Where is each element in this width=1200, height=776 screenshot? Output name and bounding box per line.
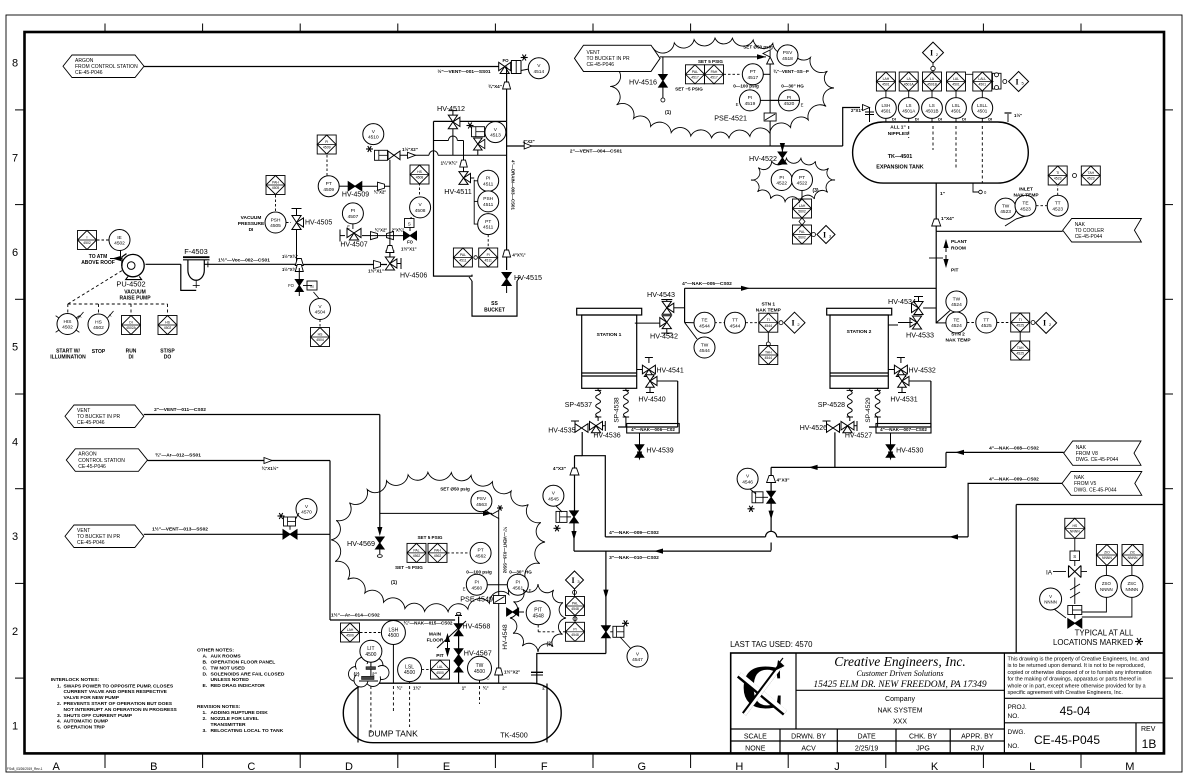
svg-text:1B: 1B <box>1142 737 1157 751</box>
svg-text:Company: Company <box>885 696 915 703</box>
svg-text:4502: 4502 <box>93 325 104 331</box>
interlock diamond I-2 above <box>932 63 934 73</box>
svg-text:LS: LS <box>929 103 935 108</box>
valve HV-4505 (3-way w/ handle) <box>296 230 298 265</box>
svg-text:TE: TE <box>1022 201 1028 207</box>
svg-text:1¼"X¾": 1¼"X¾" <box>441 161 458 166</box>
svg-text:4525: 4525 <box>1016 324 1024 328</box>
svg-text:4520: 4520 <box>784 101 795 107</box>
svg-text:4509: 4509 <box>323 187 334 193</box>
instrument LSH-4500 <box>381 621 405 645</box>
svg-text:NAK TEMP: NAK TEMP <box>756 308 782 314</box>
svg-text:4501: 4501 <box>977 109 988 114</box>
reducer 3/4"X4" below V-4514 <box>506 67 508 122</box>
svg-text:PT: PT <box>799 175 805 181</box>
svg-text:4"X3": 4"X3" <box>553 466 566 472</box>
dashed link PIT to PI square <box>537 625 539 632</box>
svg-text:VACUUM: VACUUM <box>241 215 262 221</box>
wire <box>370 235 404 237</box>
vertical header through cloud <box>769 64 771 113</box>
svg-text:ZIO: ZIO <box>1104 551 1110 555</box>
svg-text:HS: HS <box>1072 524 1077 528</box>
svg-text:PAL: PAL <box>413 548 419 552</box>
valves HV-4535 / HV-4536 pair <box>574 421 576 425</box>
off-page flag: NAK FROM V5 <box>1062 472 1142 496</box>
svg-text:FO: FO <box>288 283 295 288</box>
instrument IE-4502 <box>109 230 130 251</box>
plant room / pit riser pipe <box>935 231 937 323</box>
STATION 1 vessel <box>577 308 642 315</box>
off-page flag: VENT TO BUCKET IN PR (top) <box>575 45 661 71</box>
riser from HV-4512 to regulator line <box>452 129 454 156</box>
vertical pipe from V-4510 valve down to HV-4506 <box>389 160 391 257</box>
svg-text:4"—NAK—009—CS02: 4"—NAK—009—CS02 <box>989 477 1039 483</box>
svg-text:INTERLOCK NOTES:: INTERLOCK NOTES: <box>51 677 100 683</box>
instrument TW-4500 <box>468 656 492 680</box>
svg-text:4517: 4517 <box>710 76 718 80</box>
link to I-5 diamond <box>992 81 994 83</box>
svg-text:3"—NAK—010—CS02: 3"—NAK—010—CS02 <box>609 555 659 561</box>
instrument LIT-4500 <box>360 640 382 662</box>
svg-text:C.: C. <box>203 665 209 671</box>
svg-text:¾"─VENT─SS─P: ¾"─VENT─SS─P <box>773 69 809 74</box>
svg-text:SWAPS POWER TO OPPOSITE PUMP,: SWAPS POWER TO OPPOSITE PUMP, CLOSES <box>64 683 174 689</box>
off-page flag: NAK FROM V8 <box>1064 441 1141 465</box>
svg-text:CE-45-P046: CE-45-P046 <box>587 62 615 68</box>
svg-text:whole or in part, except where: whole or in part, except where otherwise… <box>1007 683 1146 689</box>
svg-text:HS: HS <box>95 319 102 325</box>
svg-text:FROM CONTROL STATION: FROM CONTROL STATION <box>75 64 138 70</box>
svg-text:4544: 4544 <box>699 348 710 354</box>
svg-text:4548: 4548 <box>571 633 579 637</box>
svg-text:I: I <box>823 230 826 239</box>
regulator under V-4510 <box>375 150 388 160</box>
svg-text:STN 1: STN 1 <box>761 302 775 308</box>
svg-text:D: D <box>345 761 353 773</box>
svg-text:PI: PI <box>486 176 491 182</box>
svg-text:1½"—VENT—013—SS02: 1½"—VENT—013—SS02 <box>152 526 208 533</box>
svg-text:NONE: NONE <box>745 746 766 753</box>
interlock squares TI-4523 TAH-4523 <box>1057 186 1059 195</box>
reducer 4"X3" <box>570 468 579 475</box>
svg-text:4"—DRAIN—003—CS01: 4"—DRAIN—003—CS01 <box>511 160 516 210</box>
svg-text:PU-4502: PU-4502 <box>116 280 145 289</box>
svg-text:¾": ¾" <box>397 686 403 691</box>
svg-text:RELOCATING LOCAL TO TANK: RELOCATING LOCAL TO TANK <box>211 728 284 734</box>
svg-text:DI: DI <box>129 321 132 325</box>
svg-text:4508: 4508 <box>415 208 426 214</box>
svg-text:4500: 4500 <box>474 669 485 675</box>
svg-text:LSLL: LSLL <box>977 103 988 108</box>
svg-text:TYPICAL AT ALL: TYPICAL AT ALL <box>1075 629 1134 638</box>
svg-text:TK-4500: TK-4500 <box>500 731 528 740</box>
boxed label 4"-NAK-007-CS02 <box>869 426 931 428</box>
svg-text:¾"—NAK—015—CS02: ¾"—NAK—015—CS02 <box>404 620 453 626</box>
svg-text:FROM V5: FROM V5 <box>1074 481 1096 487</box>
svg-text:I: I <box>1043 319 1046 328</box>
svg-text:C: C <box>486 676 489 681</box>
svg-text:PI: PI <box>779 175 784 181</box>
svg-text:CE-45-P046: CE-45-P046 <box>75 70 103 76</box>
svg-text:3.: 3. <box>203 728 208 734</box>
svg-text:ADDING RUPTURE DISK: ADDING RUPTURE DISK <box>211 710 269 716</box>
pipe 4"-NAK-008-CS02 from V8 flag <box>946 451 1064 453</box>
svg-text:OPERATION TRIP: OPERATION TRIP <box>64 725 106 731</box>
svg-text:DI: DI <box>892 117 896 122</box>
svg-text:TO BUCKET IN PR: TO BUCKET IN PR <box>77 414 121 420</box>
off-page flag: ARGON CONTROL STATION <box>66 449 147 472</box>
svg-text:4"—NAK—005—CS02: 4"—NAK—005—CS02 <box>682 281 732 287</box>
svg-text:5: 5 <box>12 342 18 354</box>
svg-text:1½"X1": 1½"X1" <box>401 247 417 252</box>
svg-text:HV-4505: HV-4505 <box>305 220 332 227</box>
svg-text:B: B <box>150 761 157 773</box>
svg-text:4500: 4500 <box>404 670 415 676</box>
svg-text:PI: PI <box>351 208 356 214</box>
interlock diamond I-3 <box>566 571 584 589</box>
svg-text:4522: 4522 <box>797 181 808 187</box>
svg-text:XXX: XXX <box>893 719 907 726</box>
svg-text:E.: E. <box>203 683 208 689</box>
svg-text:NOZZLE FOR LEVEL: NOZZLE FOR LEVEL <box>211 716 259 722</box>
svg-text:4509: 4509 <box>323 146 331 150</box>
svg-text:SET Ø50 psig: SET Ø50 psig <box>440 487 470 492</box>
svg-text:¾"X1½": ¾"X1½" <box>262 466 279 471</box>
svg-text:NAK TEMP: NAK TEMP <box>945 338 971 344</box>
svg-text:PRESSURE: PRESSURE <box>238 221 265 227</box>
svg-text:HV-4516: HV-4516 <box>629 78 657 87</box>
svg-text:RJV: RJV <box>971 746 985 753</box>
svg-text:VENT: VENT <box>587 50 600 56</box>
svg-text:HV-4535: HV-4535 <box>548 428 575 435</box>
svg-text:for the making of drawings, ap: for the making of drawings, apparatus or… <box>1008 677 1142 683</box>
svg-text:CONTROL STATION: CONTROL STATION <box>78 458 125 464</box>
svg-text:TI: TI <box>1019 318 1022 322</box>
valve HV-4509 solid <box>339 185 348 187</box>
svg-text:I: I <box>571 576 574 585</box>
svg-text:TRANSMITTER: TRANSMITTER <box>211 722 247 728</box>
svg-text:TAH: TAH <box>1088 171 1095 175</box>
svg-text:1": 1" <box>940 191 945 197</box>
svg-text:4505: 4505 <box>272 186 280 190</box>
valve FO at V-4514 (3-way white) <box>499 62 511 70</box>
svg-text:4507: 4507 <box>348 214 359 220</box>
svg-text:4522: 4522 <box>776 181 787 187</box>
svg-text:1½"X¾": 1½"X¾" <box>282 254 298 259</box>
svg-text:DWG. CE-45-P044: DWG. CE-45-P044 <box>1074 487 1117 493</box>
svg-text:1.: 1. <box>57 683 62 689</box>
svg-text:FROM V8: FROM V8 <box>1076 451 1098 457</box>
svg-text:Creative Engineers, Inc.: Creative Engineers, Inc. <box>834 654 965 669</box>
off-page flag: NAK TO COOLER <box>1063 219 1142 243</box>
svg-text:TT: TT <box>1055 201 1061 207</box>
svg-text:I: I <box>1016 77 1019 86</box>
svg-text:1: 1 <box>12 721 18 733</box>
svg-text:INLET: INLET <box>1019 187 1033 193</box>
svg-text:PLANT: PLANT <box>951 239 967 245</box>
svg-text:4"—NAK—008—CS02: 4"—NAK—008—CS02 <box>989 446 1039 452</box>
svg-text:ALL 1": ALL 1" <box>890 125 906 131</box>
svg-text:4505: 4505 <box>270 223 281 229</box>
svg-text:IA: IA <box>1046 570 1053 577</box>
svg-text:ABOVE ROOF: ABOVE ROOF <box>81 260 115 266</box>
argon line down to Ar-014 <box>329 534 331 620</box>
svg-text:PAL: PAL <box>572 602 578 606</box>
svg-text:EXPANSION TANK: EXPANSION TANK <box>876 165 924 171</box>
pipe 3/4"-NAK-015-CS02 w/ HV-4568/4567 <box>458 617 460 684</box>
instrument V-4513 <box>485 122 506 143</box>
svg-text:HS: HS <box>318 333 323 337</box>
svg-text:4501: 4501 <box>882 83 890 87</box>
instrument PT-4509 <box>318 176 339 197</box>
svg-text:4500: 4500 <box>388 633 399 639</box>
SS bucket <box>472 281 517 316</box>
svg-text:4562: 4562 <box>434 554 442 558</box>
tank TK-4501 EXPANSION TANK <box>853 122 1029 183</box>
interlock square PI-4548 <box>566 622 585 641</box>
svg-text:4548: 4548 <box>533 613 544 619</box>
instrument PI-4507 <box>342 203 363 224</box>
svg-text:E: E <box>443 761 450 773</box>
svg-text:5602: 5602 <box>798 210 806 214</box>
valve HV-4522 solid vertical <box>780 143 785 152</box>
svg-text:4.: 4. <box>57 719 62 725</box>
pipe 1 1/2"-Voc-002-CS01 <box>204 263 296 265</box>
interlock square LAH-4500 <box>360 632 381 634</box>
svg-text:3.: 3. <box>57 713 62 719</box>
grid row ticks and numbers <box>15 109 25 111</box>
instrument V-4547 <box>627 646 648 667</box>
instrument PT-4522 <box>792 170 813 191</box>
svg-text:4500: 4500 <box>365 652 376 658</box>
1/2" nozzle right top <box>1007 114 1009 122</box>
svg-text:2: 2 <box>12 626 18 638</box>
instrument V-4546 + control valve <box>737 468 758 489</box>
svg-text:VENT: VENT <box>77 408 90 414</box>
instrument PT-4517 <box>724 73 742 75</box>
svg-text:4513: 4513 <box>490 133 501 139</box>
svg-text:2"—VENT—004—CS01: 2"—VENT—004—CS01 <box>570 149 622 155</box>
solenoid box <box>303 285 312 287</box>
svg-text:4562: 4562 <box>413 554 421 558</box>
top header to drain line <box>434 120 507 122</box>
svg-text:SCALE: SCALE <box>744 734 767 741</box>
springs SP-4537 SP-4538 <box>597 388 599 390</box>
svg-text:HV-4548: HV-4548 <box>502 624 509 650</box>
svg-text:4563: 4563 <box>476 502 487 508</box>
svg-text:D.: D. <box>203 671 209 677</box>
svg-text:VENT: VENT <box>77 528 90 534</box>
svg-text:4501B: 4501B <box>927 83 938 87</box>
revision cloud (1) big bottom <box>331 472 545 611</box>
svg-text:¾"—VENT—016—SS02: ¾"—VENT—016—SS02 <box>503 527 508 574</box>
svg-text:4523: 4523 <box>1052 206 1063 212</box>
svg-text:4525: 4525 <box>981 323 992 329</box>
svg-text:HV-4532: HV-4532 <box>909 368 936 375</box>
typical detail boundary <box>1016 504 1163 506</box>
svg-text:HV-4512: HV-4512 <box>437 104 465 113</box>
hump crossing on mid header <box>434 140 449 142</box>
squares ZSO ZIC <box>1096 545 1117 566</box>
svg-text:4545: 4545 <box>548 496 559 502</box>
svg-text:os: os <box>310 285 314 289</box>
svg-text:DI: DI <box>915 117 919 122</box>
pipe 3/4"-Ar-012-SS01 <box>148 460 331 462</box>
off-page flag: VENT TO BUCKET IN PR (row4) <box>65 405 144 428</box>
valve to PIT-4548 <box>507 608 519 616</box>
svg-text:HV-4569: HV-4569 <box>347 539 375 548</box>
svg-text:4"—NAK—009—CS02: 4"—NAK—009—CS02 <box>609 530 659 536</box>
svg-text:HV-4527: HV-4527 <box>845 433 872 440</box>
svg-text:J: J <box>834 761 840 773</box>
svg-text:PAH: PAH <box>434 548 441 552</box>
valve HV-4531 <box>898 375 907 388</box>
svg-text:Customer Driven Solutions: Customer Driven Solutions <box>856 669 943 678</box>
svg-text:HV-4509: HV-4509 <box>342 192 369 199</box>
STATION 2 vessel <box>827 308 892 315</box>
svg-text:TE: TE <box>953 317 959 323</box>
4"-DRAIN-003-CS01 vertical line <box>506 121 508 270</box>
svg-text:4502: 4502 <box>83 241 91 245</box>
svg-text:TE: TE <box>701 318 707 324</box>
svg-text:HIS: HIS <box>64 319 72 325</box>
svg-text:HS: HS <box>165 321 170 325</box>
svg-text:1½": 1½" <box>1014 113 1022 118</box>
svg-text:L: L <box>1029 761 1035 773</box>
svg-text:PSH: PSH <box>271 217 281 223</box>
pipe 2"-VENT-004-CS01 <box>507 145 770 147</box>
svg-text:4500: 4500 <box>436 671 444 675</box>
svg-text:4523: 4523 <box>1054 177 1062 181</box>
interlock square HS-4508 <box>419 183 421 197</box>
riser to V-4546 control valve <box>770 467 772 475</box>
level instruments LSH/LS/LS/LSL/LSLL-4501 <box>885 91 887 97</box>
svg-text:APPR. BY: APPR. BY <box>961 734 994 741</box>
svg-text:TO BUCKET IN PR: TO BUCKET IN PR <box>77 534 121 540</box>
svg-text:PT: PT <box>485 219 491 225</box>
svg-text:CE-45-P046: CE-45-P046 <box>77 420 105 426</box>
svg-text:3: 3 <box>12 531 18 543</box>
interlock square LAL-4500 <box>422 669 430 671</box>
svg-text:NAK: NAK <box>1075 222 1086 228</box>
svg-text:4502: 4502 <box>62 325 73 331</box>
svg-text:PSV: PSV <box>783 50 793 56</box>
svg-text:TAH: TAH <box>1017 346 1024 350</box>
svg-text:F-4503: F-4503 <box>184 247 207 256</box>
svg-text:JPG: JPG <box>916 746 930 753</box>
svg-text:4523: 4523 <box>1000 209 1011 215</box>
revision cloud (3) small <box>751 158 835 201</box>
manifold left header pipe <box>434 121 473 276</box>
svg-text:DO: DO <box>164 355 172 361</box>
interlock square PI-4509 above <box>326 155 328 176</box>
svg-text:ROOM: ROOM <box>951 246 966 252</box>
solenoid S box above FO <box>409 227 411 231</box>
svg-text:DATE: DATE <box>858 734 876 741</box>
svg-text:A: A <box>53 761 61 773</box>
svg-text:DI: DI <box>129 355 135 361</box>
reducer 1 1/2"X1" above HV-4506 <box>386 246 394 253</box>
svg-text:CE-45-P045: CE-45-P045 <box>1034 733 1100 747</box>
svg-text:IE: IE <box>117 235 122 241</box>
svg-text:4511: 4511 <box>483 181 494 187</box>
svg-text:is to be returned upon demand.: is to be returned upon demand. It is not… <box>1008 663 1146 669</box>
svg-text:S: S <box>408 222 411 227</box>
svg-text:CURRENT VALVE AND OPENS RESPEC: CURRENT VALVE AND OPENS RESPECTIVE <box>64 689 168 695</box>
svg-text:I: I <box>930 48 933 57</box>
instrument V-4514 <box>528 58 549 79</box>
svg-text:G: G <box>638 761 647 773</box>
svg-text:SET Ø50 psig: SET Ø50 psig <box>743 45 773 50</box>
svg-text:F: F <box>541 761 548 773</box>
svg-text:SHUTS OFF CURRENT PUMP: SHUTS OFF CURRENT PUMP <box>64 713 133 719</box>
svg-text:HV-4539: HV-4539 <box>646 448 673 455</box>
valve HV-4506 3-way <box>372 264 383 266</box>
valve HV-4507 <box>340 235 345 237</box>
svg-text:1"X4": 1"X4" <box>941 216 954 222</box>
svg-text:TI: TI <box>767 318 770 322</box>
svg-text:DI: DI <box>938 117 942 122</box>
svg-text:4560: 4560 <box>471 585 482 591</box>
svg-text:4570: 4570 <box>301 510 312 516</box>
off-page flag: VENT TO BUCKET IN PR (row3) <box>65 525 144 548</box>
svg-text:4544: 4544 <box>765 356 773 360</box>
svg-text:5602: 5602 <box>798 236 806 240</box>
station1 drain header <box>582 432 605 537</box>
valve w/ V-4570 <box>283 530 297 539</box>
svg-text:PSH: PSH <box>483 196 493 202</box>
dashed dip tubes inside tank <box>908 126 910 138</box>
svg-text:NAK: NAK <box>1076 445 1087 451</box>
svg-text:4508: 4508 <box>416 176 424 180</box>
svg-text:TI: TI <box>1056 171 1059 175</box>
svg-text:PSV: PSV <box>477 496 487 502</box>
svg-text:NNNN: NNNN <box>1100 587 1113 592</box>
svg-text:PAH: PAH <box>711 70 718 74</box>
svg-text:MAIN: MAIN <box>429 632 442 638</box>
instrument V-4510 <box>363 124 384 145</box>
svg-text:TW: TW <box>953 296 961 302</box>
svg-text:TW: TW <box>1002 203 1010 209</box>
svg-text:4524: 4524 <box>951 323 962 329</box>
svg-text:(1): (1) <box>665 110 671 116</box>
svg-text:LAH: LAH <box>347 628 354 632</box>
svg-text:2": 2" <box>542 686 547 691</box>
svg-text:SOLENOIDS ARE FAIL CLOSED: SOLENOIDS ARE FAIL CLOSED <box>211 671 285 677</box>
valve (2 tri) right of regulator <box>388 151 400 160</box>
interlock square RUN DI <box>122 316 141 335</box>
svg-text:FO: FO <box>407 240 414 245</box>
svg-text:45-04: 45-04 <box>1060 704 1091 718</box>
svg-text:SET −5 PSIG: SET −5 PSIG <box>395 565 423 570</box>
instrument PT-4562 <box>447 552 469 554</box>
svg-text:AUX ROOMS: AUX ROOMS <box>211 654 242 660</box>
svg-text:ZIC: ZIC <box>1130 551 1136 555</box>
svg-text:2.: 2. <box>57 701 62 707</box>
svg-text:PI: PI <box>573 627 576 631</box>
svg-text:1½"X2": 1½"X2" <box>504 669 520 675</box>
svg-text:K: K <box>931 761 939 773</box>
instrument V-4504 <box>314 292 320 299</box>
svg-text:15425 ELM DR. NEW FREEDOM, PA: 15425 ELM DR. NEW FREEDOM, PA 17349 <box>813 680 987 690</box>
svg-text:ARGON: ARGON <box>78 452 97 458</box>
svg-text:LSL: LSL <box>952 103 961 108</box>
svg-text:1½"—Voc—002—CS01: 1½"—Voc—002—CS01 <box>218 257 270 264</box>
pipe 1 1/2"-Ar-014-CS02 <box>330 619 455 621</box>
svg-text:SET 5 PSIG: SET 5 PSIG <box>698 59 723 64</box>
svg-text:4501: 4501 <box>951 109 962 114</box>
pipe from VENT flag into cloud <box>660 56 766 58</box>
